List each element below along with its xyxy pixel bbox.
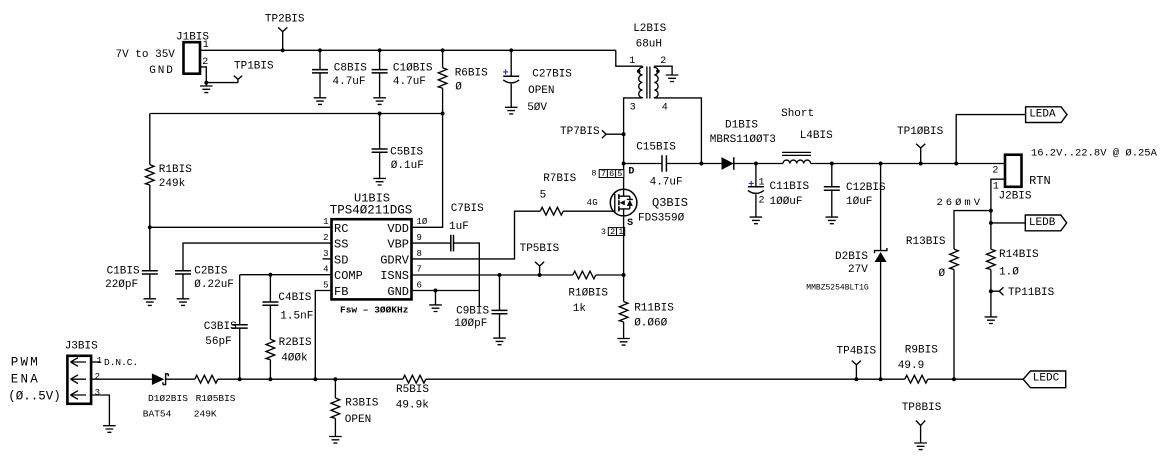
phase dot L2BIS primary xyxy=(637,69,641,73)
junction FB drop on bus xyxy=(313,377,317,381)
wire FB bus right to LEDC xyxy=(928,378,1023,380)
svg-text:GND: GND xyxy=(387,285,409,299)
junction ISNS TP5BIS xyxy=(538,273,542,277)
svg-text:5ØV: 5ØV xyxy=(527,102,547,114)
label R2BIS 400k xyxy=(279,337,312,364)
svg-text:OPEN: OPEN xyxy=(528,85,554,97)
wire Q3 source to ISNS node xyxy=(623,216,625,275)
ground C10BIS xyxy=(373,98,386,105)
wire C15BIS to L2 pin4 node xyxy=(666,163,701,165)
svg-text:4: 4 xyxy=(662,103,668,114)
svg-text:BAT54: BAT54 xyxy=(143,409,172,420)
wire J3 pin2 to D102BIS xyxy=(91,378,152,380)
resistor R3BIS xyxy=(331,379,340,436)
svg-text:D: D xyxy=(628,167,634,178)
svg-text:R3BIS: R3BIS xyxy=(345,398,378,410)
svg-text:6: 6 xyxy=(417,280,422,290)
svg-text:4.7uF: 4.7uF xyxy=(650,176,683,188)
inductor L2BIS secondary winding xyxy=(654,66,658,98)
svg-text:4: 4 xyxy=(587,198,592,208)
junction R6BIS on rail xyxy=(441,48,445,52)
svg-text:Ø: Ø xyxy=(939,268,946,280)
capacitor C9BIS xyxy=(492,275,508,338)
wire R10BIS to Q3 source xyxy=(596,274,624,276)
wire J1 pin2 to ground node xyxy=(200,67,206,83)
svg-text:D.N.C.: D.N.C. xyxy=(104,357,138,368)
svg-text:S: S xyxy=(627,218,633,229)
junction C12BIS node xyxy=(830,162,834,166)
junction C8BIS on rail xyxy=(318,48,322,52)
wire drain vertical to Q3 xyxy=(623,164,625,190)
svg-text:TP5BIS: TP5BIS xyxy=(520,243,560,255)
svg-text:C1BIS: C1BIS xyxy=(107,265,140,277)
ground J1 pin2 xyxy=(205,83,207,86)
svg-text:68uH: 68uH xyxy=(636,38,662,50)
svg-text:OPEN: OPEN xyxy=(345,414,371,426)
svg-text:C4BIS: C4BIS xyxy=(278,292,311,304)
svg-text:8: 8 xyxy=(417,249,422,259)
junction C27BIS on rail xyxy=(509,48,513,52)
resistor R105BIS xyxy=(195,375,218,383)
svg-text:1: 1 xyxy=(203,40,209,51)
svg-text:C2BIS: C2BIS xyxy=(194,265,227,277)
svg-text:LEDA: LEDA xyxy=(1029,109,1056,121)
label C15BIS 4.7uF xyxy=(636,141,682,188)
capacitor C7BIS xyxy=(451,235,454,252)
svg-text:22ØpF: 22ØpF xyxy=(105,279,138,291)
label C3BIS 56pF xyxy=(204,321,237,348)
junction D2BIS anode on bus xyxy=(879,377,883,381)
test point TP4BIS xyxy=(852,361,861,380)
ground C1BIS xyxy=(144,299,157,306)
junction TP10BIS node xyxy=(919,162,923,166)
junction ISNS C9BIS xyxy=(498,273,502,277)
svg-text:TPS4Ø211DGS: TPS4Ø211DGS xyxy=(330,204,413,218)
svg-text:R7BIS: R7BIS xyxy=(543,173,576,185)
resistor R7BIS xyxy=(540,207,563,215)
wire RC net U1 pin1 xyxy=(150,226,332,228)
resistor R5BIS xyxy=(403,375,426,383)
svg-text:RTN: RTN xyxy=(1029,174,1051,188)
wire to D1BIS anode xyxy=(701,163,721,165)
connector J1BIS xyxy=(184,42,201,73)
wire J3 pin3 to ground xyxy=(91,395,109,426)
svg-text:1Ø: 1Ø xyxy=(417,217,428,227)
capacitor C11BIS polarized xyxy=(748,164,764,218)
wire VBP net U1 pin9 xyxy=(412,242,451,244)
op-amp U1BIS TPS40211DGS body xyxy=(332,219,412,299)
svg-text:4ØØk: 4ØØk xyxy=(281,352,308,364)
capacitor C15BIS xyxy=(662,155,666,171)
junction Q3 source ISNS R11BIS xyxy=(622,273,626,277)
label D1BIS MBRS1100T3 xyxy=(710,119,776,146)
svg-text:C11BIS: C11BIS xyxy=(770,181,810,193)
svg-text:5: 5 xyxy=(323,280,328,290)
svg-text:3: 3 xyxy=(630,103,636,114)
wire COMP net U1 pin4 xyxy=(240,274,332,276)
svg-text:4.7uF: 4.7uF xyxy=(393,76,426,88)
svg-text:56pF: 56pF xyxy=(205,336,231,348)
svg-text:Fsw – 3ØØKHz: Fsw – 3ØØKHz xyxy=(340,305,408,316)
label C5BIS 0.1uF xyxy=(390,147,424,173)
svg-text:C3BIS: C3BIS xyxy=(204,321,237,333)
wire LEDB branch xyxy=(991,222,1025,224)
svg-text:COMP: COMP xyxy=(334,269,363,283)
ground R14BIS xyxy=(985,317,998,324)
label C10BIS 4.7uF xyxy=(393,62,433,87)
wire L2BIS pin3 to Q3 drain xyxy=(624,98,643,164)
wire VDD mid rail xyxy=(150,113,443,115)
resistor R11BIS xyxy=(619,275,628,339)
svg-text:5: 5 xyxy=(617,169,622,179)
wire FB net U1 pin5 xyxy=(315,291,331,380)
wire GND net U1 pin6 xyxy=(412,290,480,292)
wire FB bus middle xyxy=(426,378,905,380)
wire SS net U1 pin2 xyxy=(183,243,332,271)
svg-text:R13BIS: R13BIS xyxy=(906,236,946,248)
pin 3 SD stub xyxy=(323,258,332,260)
label R11BIS 0.060 xyxy=(634,302,674,329)
svg-text:C8BIS: C8BIS xyxy=(334,62,367,74)
core L2BIS xyxy=(647,67,650,99)
connector J2BIS xyxy=(1005,155,1022,187)
svg-text:2: 2 xyxy=(95,372,100,382)
svg-text:+: + xyxy=(503,69,509,80)
inductor L2BIS primary winding xyxy=(639,66,643,98)
junction C11BIS node xyxy=(754,162,758,166)
capacitor C27BIS polarized xyxy=(503,50,519,107)
ground R11BIS xyxy=(617,339,630,346)
svg-text:+: + xyxy=(748,180,754,191)
label D102BIS BAT54 xyxy=(143,393,188,420)
svg-text:7: 7 xyxy=(601,169,606,179)
svg-text:1: 1 xyxy=(323,217,328,227)
ground C11BIS xyxy=(750,217,763,224)
svg-text:J3BIS: J3BIS xyxy=(65,340,98,352)
capacitor C2BIS xyxy=(175,271,191,299)
svg-text:C7BIS: C7BIS xyxy=(451,203,484,215)
svg-text:Ø.1uF: Ø.1uF xyxy=(391,160,424,172)
svg-text:4: 4 xyxy=(323,265,328,275)
junction 260mV node xyxy=(989,209,993,213)
resistor R2BIS xyxy=(266,305,275,379)
test point TP11BIS xyxy=(991,287,1004,295)
pin numbers 8 7 6 5 Q3BIS drain xyxy=(591,169,623,180)
wire J3 pin1 stub xyxy=(91,361,100,363)
junction D2BIS node xyxy=(879,162,883,166)
svg-text:R14BIS: R14BIS xyxy=(999,249,1039,261)
resistor R6BIS xyxy=(438,50,447,113)
capacitor C4BIS xyxy=(262,275,278,306)
svg-text:2: 2 xyxy=(759,195,765,206)
junction C10BIS on rail xyxy=(378,48,382,52)
svg-text:1: 1 xyxy=(759,177,765,188)
svg-text:PWM: PWM xyxy=(11,355,40,369)
wire rail to L2BIS pin1 xyxy=(616,50,643,66)
label R14BIS 1.0 xyxy=(999,249,1039,278)
ground C12BIS xyxy=(826,217,839,224)
svg-text:5: 5 xyxy=(540,190,547,202)
wire C11 node to L4BIS xyxy=(756,163,783,165)
test point TP5BIS xyxy=(535,262,544,275)
svg-text:R1BIS: R1BIS xyxy=(159,164,192,176)
svg-text:D1Ø2BIS: D1Ø2BIS xyxy=(148,393,188,404)
wire C7BIS to GND net xyxy=(454,243,480,306)
svg-text:G: G xyxy=(592,198,597,208)
svg-text:49.9k: 49.9k xyxy=(396,400,429,412)
svg-text:D1BIS: D1BIS xyxy=(725,119,758,131)
junction TP7BIS on drain xyxy=(622,132,626,136)
diode D102BIS schottky xyxy=(152,373,168,385)
svg-text:1k: 1k xyxy=(573,303,587,315)
svg-text:49.9: 49.9 xyxy=(898,360,924,372)
svg-text:L2BIS: L2BIS xyxy=(633,23,666,35)
junction LEDA branch node xyxy=(954,162,958,166)
svg-text:249k: 249k xyxy=(159,178,186,190)
label R3BIS OPEN xyxy=(345,398,379,427)
wire ISNS net U1 pin7 xyxy=(412,274,573,276)
wire drain node to C15BIS xyxy=(624,163,662,165)
transistor Q3BIS FDS3590 xyxy=(610,189,637,216)
diode D1BIS xyxy=(722,157,734,170)
test point TP1BIS xyxy=(206,76,242,83)
wire J2 pin1 to R14 branch xyxy=(991,179,1005,223)
junction R13BIS on bus xyxy=(952,377,956,381)
junction L2 pin4 D1BIS node xyxy=(699,162,703,166)
svg-text:R1Ø5BIS: R1Ø5BIS xyxy=(196,393,236,404)
junction TP2BIS on rail xyxy=(281,48,285,52)
junction R3BIS on bus xyxy=(333,377,337,381)
svg-text:1: 1 xyxy=(97,356,102,366)
svg-text:1ØuF: 1ØuF xyxy=(846,196,872,208)
svg-text:FDS359Ø: FDS359Ø xyxy=(638,213,685,225)
svg-text:VBP: VBP xyxy=(387,238,409,252)
svg-text:R11BIS: R11BIS xyxy=(634,302,674,314)
junction R2BIS on bus xyxy=(268,377,272,381)
junction TP11BIS node xyxy=(989,289,993,293)
wire FB bus left xyxy=(218,378,403,380)
label Q3BIS FDS3590 xyxy=(638,196,688,224)
svg-text:C5BIS: C5BIS xyxy=(390,147,423,159)
svg-text:VDD: VDD xyxy=(387,222,409,236)
label R5BIS 49.9k xyxy=(396,384,430,412)
flag LEDB xyxy=(1025,215,1066,231)
junction RC node R1BIS C1BIS xyxy=(148,225,152,229)
wire 260mV node to R13BIS xyxy=(954,211,991,250)
resistor R9BIS xyxy=(905,375,928,383)
test point TP10BIS xyxy=(916,144,925,164)
svg-text:RC: RC xyxy=(334,222,348,236)
svg-text:D2BIS: D2BIS xyxy=(835,251,868,263)
label R13BIS 0 xyxy=(906,236,946,280)
junction LEDB node xyxy=(989,221,993,225)
label R9BIS 49.9 xyxy=(898,344,938,372)
svg-text:2: 2 xyxy=(992,165,998,176)
junction Q3 drain C15BIS node xyxy=(622,162,626,166)
svg-text:MBRS11ØØT3: MBRS11ØØT3 xyxy=(710,134,776,146)
capacitor C8BIS xyxy=(312,50,328,98)
test point TP7BIS xyxy=(602,130,624,138)
svg-text:3: 3 xyxy=(95,388,100,398)
svg-text:1ØØuF: 1ØØuF xyxy=(770,196,803,208)
svg-text:1: 1 xyxy=(629,56,635,67)
label PWM ENA (0..5V) xyxy=(8,355,61,403)
pin numbers 3 2 1 Q3BIS source xyxy=(601,227,625,237)
wire VIN rail xyxy=(283,49,616,51)
junction C3BIS on bus xyxy=(238,377,242,381)
junction COMP C4BIS xyxy=(268,273,272,277)
svg-text:2: 2 xyxy=(323,233,328,243)
test point TP2BIS xyxy=(278,27,287,50)
svg-text:R9BIS: R9BIS xyxy=(905,344,938,356)
svg-text:Short: Short xyxy=(781,108,814,120)
svg-text:FB: FB xyxy=(334,285,348,299)
svg-text:C15BIS: C15BIS xyxy=(636,141,676,153)
wire D1BIS cathode to C11 node xyxy=(734,163,756,165)
svg-text:1.5nF: 1.5nF xyxy=(280,311,313,323)
label R105BIS 249K xyxy=(194,393,236,420)
svg-text:TP4BIS: TP4BIS xyxy=(837,346,877,358)
svg-text:3: 3 xyxy=(323,249,328,259)
svg-text:(Ø..5V): (Ø..5V) xyxy=(8,389,61,403)
ground L2BIS pin2 xyxy=(666,75,679,82)
svg-text:2: 2 xyxy=(610,227,615,237)
wire GDRV net U1 pin8 xyxy=(412,211,541,259)
svg-text:C1ØBIS: C1ØBIS xyxy=(393,62,433,74)
svg-text:TP1BIS: TP1BIS xyxy=(234,60,274,72)
svg-text:6: 6 xyxy=(609,169,614,179)
capacitor C1BIS xyxy=(142,227,158,298)
inductor L4BIS xyxy=(782,152,811,163)
label R7BIS 5 xyxy=(540,173,577,202)
wire D2BIS anode to bus xyxy=(880,262,882,379)
resistor R13BIS xyxy=(950,249,959,379)
label R1BIS 249k xyxy=(159,164,192,190)
svg-text:Ø.Ø6Ø: Ø.Ø6Ø xyxy=(634,317,667,329)
wire D102BIS to R105BIS xyxy=(166,378,195,380)
svg-text:R1ØBIS: R1ØBIS xyxy=(568,288,608,300)
junction R6BIS-VDD on mid rail xyxy=(441,112,445,116)
wire output to D2BIS cathode xyxy=(880,164,882,251)
ground C27BIS xyxy=(505,107,518,114)
svg-text:TP11BIS: TP11BIS xyxy=(1008,287,1055,299)
capacitor C12BIS xyxy=(824,164,840,218)
resistor R1BIS xyxy=(146,114,155,228)
ground U1 GND xyxy=(435,291,437,305)
label C1BIS 220pF xyxy=(105,265,140,290)
svg-text:249K: 249K xyxy=(194,409,217,420)
connector J3BIS xyxy=(67,356,91,404)
svg-text:8: 8 xyxy=(591,169,596,179)
svg-text:J2BIS: J2BIS xyxy=(999,190,1032,202)
ground J3 pin3 xyxy=(103,426,116,433)
svg-text:Ø.22uF: Ø.22uF xyxy=(194,279,234,291)
capacitor C3BIS xyxy=(232,275,248,380)
ground C8BIS xyxy=(314,98,327,105)
svg-text:SS: SS xyxy=(334,238,348,252)
svg-text:R6BIS: R6BIS xyxy=(455,68,488,80)
ground R3BIS xyxy=(329,437,342,444)
svg-text:4.7uF: 4.7uF xyxy=(333,76,366,88)
junction TP4BIS on bus xyxy=(854,377,858,381)
label C11BIS 100uF xyxy=(770,181,810,208)
wire J1 pin1 to VIN rail xyxy=(200,49,283,51)
ground C5BIS xyxy=(373,178,386,185)
svg-text:1.Ø: 1.Ø xyxy=(999,266,1019,278)
svg-text:SD: SD xyxy=(334,253,348,267)
label R6BIS 0 xyxy=(455,68,488,94)
svg-text:TP2BIS: TP2BIS xyxy=(265,14,305,26)
label C8BIS 4.7uF xyxy=(333,62,368,87)
wire L2BIS pin4 to C15BIS xyxy=(654,98,701,164)
label D2BIS 27V xyxy=(835,251,868,276)
svg-text:1: 1 xyxy=(618,227,623,237)
svg-text:GND: GND xyxy=(149,65,175,77)
flag LEDC xyxy=(1023,371,1065,388)
svg-text:R5BIS: R5BIS xyxy=(396,384,429,396)
flag LEDA xyxy=(1026,107,1067,123)
svg-text:R2BIS: R2BIS xyxy=(279,337,312,349)
label C7BIS 1uF xyxy=(449,203,484,233)
svg-text:L4BIS: L4BIS xyxy=(800,130,833,142)
svg-text:C27BIS: C27BIS xyxy=(532,69,572,81)
label C27BIS OPEN 50V xyxy=(527,69,572,114)
label G gate pin 4 xyxy=(587,198,598,208)
svg-text:MMBZ5254BLT1G: MMBZ5254BLT1G xyxy=(806,284,869,293)
wire L4BIS to J2 pin2 xyxy=(811,163,1005,165)
svg-text:ENA: ENA xyxy=(11,373,40,387)
diode D2BIS zener xyxy=(875,248,887,262)
svg-text:16.2V..22.8V @ Ø.25A: 16.2V..22.8V @ Ø.25A xyxy=(1031,147,1158,159)
label C2BIS 0.22uF xyxy=(194,265,234,290)
phase dot L2BIS secondary xyxy=(656,69,660,73)
svg-text:C9BIS: C9BIS xyxy=(456,305,489,317)
label R10BIS 1k xyxy=(568,288,608,316)
svg-text:Ø: Ø xyxy=(455,82,462,94)
svg-text:27V: 27V xyxy=(848,264,868,276)
svg-text:GDRV: GDRV xyxy=(380,253,410,267)
label C9BIS 100pF xyxy=(454,305,489,330)
resistor R10BIS xyxy=(573,271,596,279)
junction C5BIS on mid rail xyxy=(378,112,382,116)
svg-text:7V to 35V: 7V to 35V xyxy=(116,49,176,61)
junction J1 pin2 ground node xyxy=(204,81,208,85)
svg-text:ISNS: ISNS xyxy=(380,269,409,283)
label L2BIS 68uH xyxy=(633,23,666,50)
svg-text:2: 2 xyxy=(660,56,666,67)
wire LEDA branch xyxy=(956,115,1025,164)
resistor R14BIS xyxy=(987,223,996,317)
capacitor C10BIS xyxy=(372,50,388,98)
svg-text:Q3BIS: Q3BIS xyxy=(652,196,688,210)
test point TP8BIS xyxy=(914,421,927,450)
svg-text:LEDB: LEDB xyxy=(1029,217,1056,229)
svg-text:LEDC: LEDC xyxy=(1033,373,1060,385)
svg-text:TP7BIS: TP7BIS xyxy=(560,126,600,138)
label C12BIS 10uF xyxy=(846,182,886,208)
svg-text:26ØmV: 26ØmV xyxy=(937,197,984,209)
svg-text:7: 7 xyxy=(417,265,422,275)
ground C2BIS xyxy=(177,299,190,306)
label C4BIS 1.5nF xyxy=(278,292,313,323)
capacitor C5BIS xyxy=(372,114,388,179)
wire VDD drop to U1 pin10 xyxy=(412,114,443,228)
ground C9BIS xyxy=(493,338,506,345)
svg-text:TP8BIS: TP8BIS xyxy=(902,402,942,414)
wire R7BIS to Q3 gate xyxy=(563,210,615,212)
svg-text:9: 9 xyxy=(417,233,422,243)
svg-text:1uF: 1uF xyxy=(449,221,469,233)
